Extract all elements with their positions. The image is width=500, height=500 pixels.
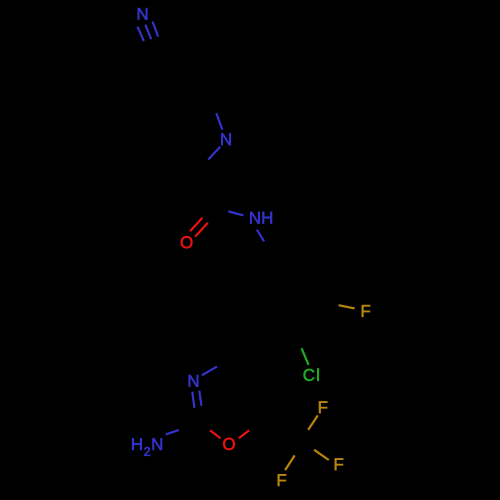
aryl F label [362, 305, 370, 317]
Cl label [304, 368, 319, 380]
wire CF3 top F half-bond [308, 415, 318, 429]
nitrile N label [138, 8, 147, 20]
CF3 bottom-left F label [278, 474, 286, 486]
amide NH label [250, 212, 272, 224]
C=O double bond line 1 [190, 218, 202, 232]
wire ring O right half-bond [239, 430, 249, 438]
wire CF3 bottom-left F half-bond [285, 455, 295, 470]
amino H2N label H [132, 438, 141, 450]
wire ring O left half-bond [210, 430, 220, 438]
nitrile triple bond line 3 [153, 22, 159, 37]
wire oxazine N to C4 half-bond [202, 367, 217, 376]
amino H2N label N [153, 438, 162, 450]
oxazine N=C double bond line 2 [199, 391, 201, 406]
CF3 right F label [335, 458, 343, 470]
wire NH to phenyl half-bond [257, 230, 264, 242]
CF3 top F label [319, 401, 327, 413]
wire aryl F half-bond [339, 305, 355, 308]
wire pyridine N lower half-bond [208, 147, 220, 160]
pyridine N label [221, 133, 230, 145]
amino H2N label subscript 2 [144, 447, 150, 456]
wire Cl half-bond [302, 348, 309, 365]
oxazine ring O label [223, 438, 235, 450]
amide O label [181, 236, 193, 248]
nitrile triple bond line 1 [137, 27, 143, 41]
oxazine N=C double bond line 1 [192, 392, 194, 408]
wire H2N half-bond [166, 430, 179, 434]
nitrile triple bond line 2 [145, 25, 151, 39]
C=O double bond line 2 [195, 223, 208, 237]
wire amide C to NH half-bond [228, 211, 243, 215]
oxazine ring N label [189, 375, 198, 387]
wire pyridine N upper half-bond [216, 113, 222, 130]
wire CF3 right F half-bond [314, 450, 329, 460]
